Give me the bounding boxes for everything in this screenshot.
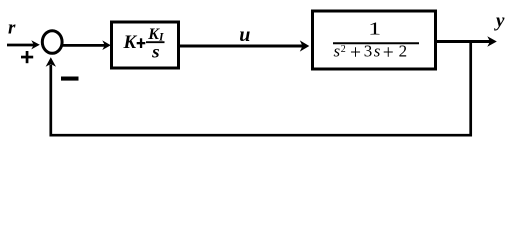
svg-text:y: y — [494, 11, 505, 32]
svg-text:r: r — [8, 18, 16, 39]
svg-text:K: K — [123, 32, 138, 53]
svg-text:s: s — [151, 41, 160, 61]
svg-text:u: u — [239, 24, 250, 46]
svg-text:1: 1 — [368, 18, 381, 38]
